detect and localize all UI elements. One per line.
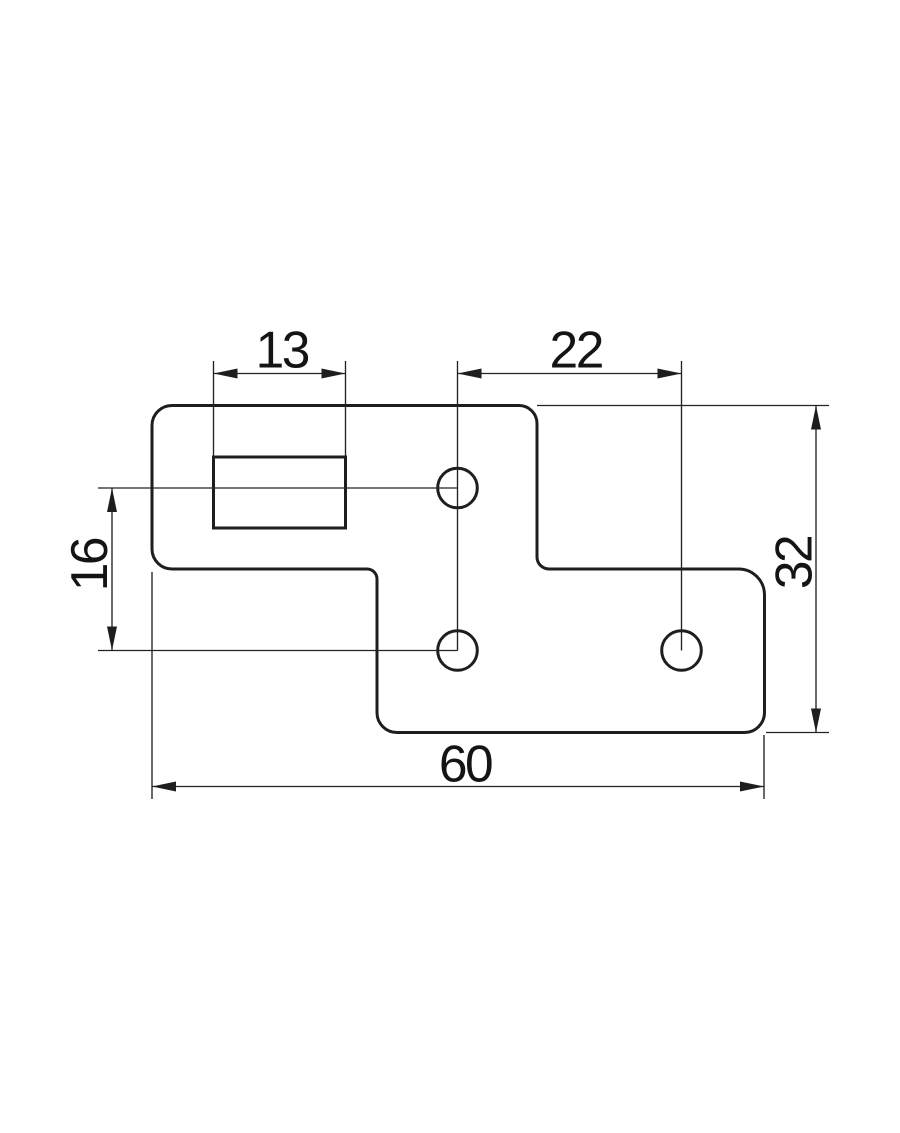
dim 22: arrow right	[658, 369, 682, 379]
dim 22: extension line left (through holes)	[457, 361, 459, 651]
dim 60: arrow right	[740, 782, 764, 792]
svg-text:32: 32	[764, 536, 822, 589]
dim 13: extension line right	[345, 361, 347, 457]
dim 32: dimension line	[815, 406, 817, 733]
svg-text:13: 13	[256, 320, 309, 378]
dim 60: arrow left	[152, 782, 176, 792]
dim 32: extension line bottom	[766, 732, 829, 734]
dim 22: dimension line	[458, 373, 682, 375]
hole bottom-right	[662, 631, 702, 671]
dim 60: extension line left	[151, 572, 153, 799]
slot (rectangular cutout)	[214, 457, 346, 528]
dim 22: arrow left	[458, 369, 482, 379]
dim 32: arrow up	[811, 406, 821, 430]
dim 16: arrow down	[107, 627, 117, 651]
dim 32: arrow down	[811, 709, 821, 733]
svg-text:22: 22	[550, 320, 603, 378]
dim 32: extension line top	[537, 405, 829, 407]
hole top	[438, 468, 478, 508]
dim 16: extension line top (through slot to hole center)	[98, 487, 458, 489]
dim 22: extension line right (to hole center)	[681, 361, 683, 651]
dim 60: dimension line	[152, 786, 764, 788]
hole bottom-left	[438, 631, 478, 671]
dim 13: arrow right	[322, 369, 346, 379]
dim 16: dimension line	[111, 488, 113, 651]
svg-text:60: 60	[439, 734, 492, 792]
plate outline	[152, 406, 765, 733]
dim 16: arrow up	[107, 488, 117, 512]
dim 13: dimension line	[214, 373, 346, 375]
dim 13: arrow left	[214, 369, 238, 379]
dim 60: extension line right	[763, 735, 765, 799]
svg-text:16: 16	[60, 538, 118, 591]
dim 13: extension line left	[213, 361, 215, 457]
dim 16: extension line bottom (to hole center)	[98, 650, 458, 652]
